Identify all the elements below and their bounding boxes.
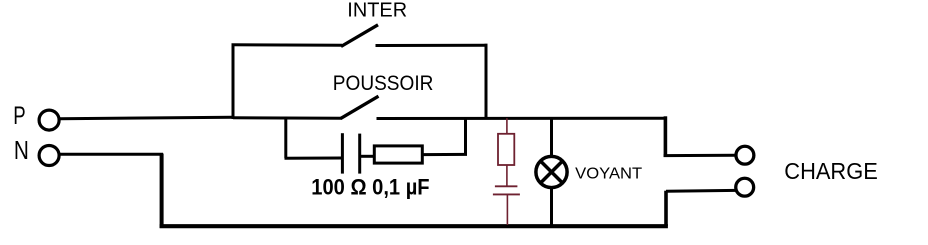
capacitor snubber bottom plate (red): [493, 193, 520, 195]
wire INTER branch top right segment: [376, 44, 488, 47]
terminal CHARGE bottom: [736, 178, 754, 196]
resistor R snubber body (red): [498, 134, 514, 165]
capacitor snubber top plate (red): [495, 185, 518, 187]
wire capacitor to resistor stub: [360, 155, 375, 158]
wire RC branch left horizontal: [285, 157, 343, 160]
wire RC branch left vertical: [284, 118, 287, 158]
terminal N: [39, 146, 59, 166]
wire N terminal horizontal: [59, 153, 163, 156]
wire from CHARGE bottom terminal: [666, 189, 736, 193]
svg-text:N: N: [14, 135, 29, 165]
wire INTER branch top left segment: [232, 43, 343, 47]
wire to CHARGE top terminal: [664, 154, 737, 157]
svg-text:INTER: INTER: [347, 0, 407, 22]
capacitor C right plate: [358, 134, 361, 174]
switch POUSSOIR blade: [341, 96, 379, 118]
wire main line right of POUSSOIR: [377, 117, 668, 120]
lamp VOYANT circle: [536, 156, 567, 187]
wire bottom rail: [160, 224, 668, 228]
wire INTER branch left vertical: [232, 45, 235, 119]
svg-text:CHARGE: CHARGE: [784, 158, 878, 184]
wire snubber bottom (red): [506, 194, 508, 225]
wire top rail drop at right: [664, 116, 668, 157]
wire CHARGE bottom drop: [664, 191, 668, 226]
wire snubber middle (red): [506, 165, 508, 186]
wire N drop vertical: [160, 154, 164, 229]
switch INTER blade: [341, 25, 378, 47]
wire snubber top (red): [506, 118, 508, 134]
lamp VOYANT cross: [541, 161, 563, 183]
resistor R body: [374, 146, 422, 163]
svg-text:P: P: [13, 102, 25, 130]
svg-text:POUSSOIR: POUSSOIR: [333, 72, 434, 95]
wire INTER branch right vertical: [485, 44, 488, 119]
wire RC branch right vertical: [464, 118, 467, 154]
svg-text:100 Ω 0,1 µF: 100 Ω 0,1 µF: [311, 174, 429, 199]
terminal CHARGE top: [736, 146, 754, 164]
wire P terminal to node A: [59, 117, 233, 119]
wire lamp branch bottom: [550, 187, 553, 227]
terminal P: [39, 110, 59, 130]
capacitor C left plate: [341, 133, 344, 173]
wire resistor to RC right vertical: [422, 153, 467, 156]
svg-text:VOYANT: VOYANT: [575, 166, 642, 183]
wire main line left of POUSSOIR: [233, 116, 342, 120]
wire lamp branch top: [550, 118, 553, 158]
